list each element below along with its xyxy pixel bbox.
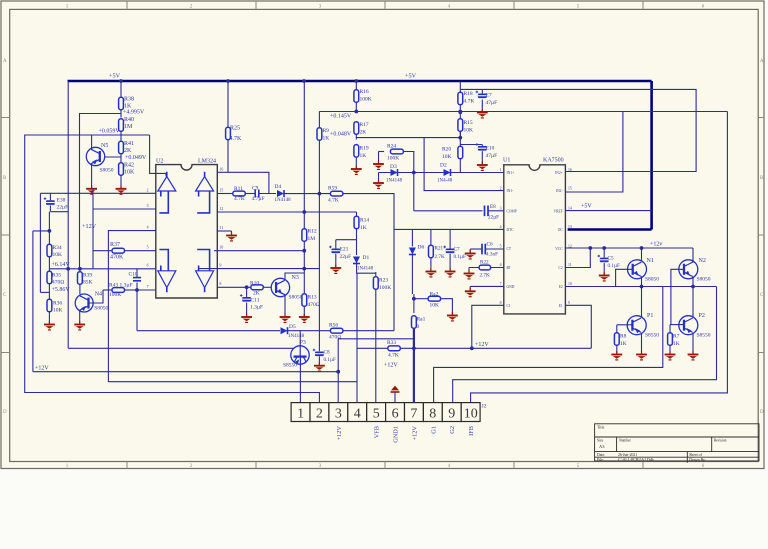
svg-text:7: 7: [410, 407, 417, 422]
op-amp B stubs: [197, 172, 209, 213]
resistor R18: [458, 92, 463, 105]
svg-text:GND: GND: [507, 285, 515, 289]
capacitor C8: [315, 352, 324, 357]
ground under E10: [481, 162, 483, 165]
svg-text:E10: E10: [486, 146, 495, 152]
svg-text:22µF: 22µF: [488, 215, 499, 221]
svg-text:4: 4: [500, 225, 502, 229]
svg-text:E8: E8: [490, 204, 496, 210]
svg-text:14: 14: [568, 207, 572, 211]
svg-text:6: 6: [392, 407, 399, 422]
wire pin11 C2 column: [565, 248, 590, 268]
capacitor C7: [449, 229, 451, 248]
svg-text:COMP: COMP: [507, 209, 517, 213]
svg-text:S8550: S8550: [645, 333, 659, 339]
resistor R34: [47, 244, 52, 257]
resistor R59: [330, 191, 343, 196]
svg-text:R18: R18: [464, 91, 473, 97]
ground under E21: [335, 265, 337, 268]
svg-text:D: D: [3, 410, 7, 415]
svg-text:R13: R13: [308, 295, 317, 301]
svg-text:E38: E38: [57, 198, 66, 204]
wire x40 drop: [39, 193, 41, 292]
svg-text:1K: 1K: [323, 136, 330, 142]
wire pin3 riser: [337, 339, 339, 403]
svg-text:2: 2: [147, 189, 149, 193]
svg-text:C7: C7: [454, 247, 460, 253]
capacitor E21: [335, 240, 337, 249]
svg-text:470Ω: 470Ω: [52, 280, 64, 286]
wire LM324 pin3: [93, 208, 156, 210]
svg-text:C10: C10: [129, 272, 138, 278]
wire C10 node to pin7 LM324: [137, 289, 156, 291]
svg-text:13: 13: [568, 225, 572, 229]
svg-text:IN2+: IN2+: [555, 171, 563, 175]
wire D4 to R59: [285, 193, 331, 195]
svg-text:R24: R24: [387, 144, 396, 150]
svg-text:R8: R8: [620, 334, 627, 340]
svg-text:R14: R14: [360, 218, 369, 224]
wire pin9 LM324 row: [199, 268, 319, 270]
wire COMP row: [414, 210, 483, 212]
wire P2 emitter: [692, 334, 694, 355]
wire E1 row drop to +12V row: [565, 305, 591, 348]
wire pin1 row U1: [379, 172, 504, 174]
resistor R17: [354, 122, 359, 135]
svg-text:7: 7: [147, 285, 149, 289]
wire N3 emitter down: [284, 295, 286, 317]
resistor R16: [354, 90, 359, 103]
svg-text:1N4148: 1N4148: [288, 334, 305, 339]
svg-text:3: 3: [335, 407, 342, 422]
wire P3 base row: [68, 347, 293, 349]
ground under R7: [669, 351, 671, 354]
svg-text:N3: N3: [292, 275, 299, 281]
ground under C5: [603, 272, 605, 275]
svg-text:Ra2: Ra2: [430, 292, 439, 298]
svg-text:R16: R16: [360, 89, 369, 95]
wire feedback loop pin16: [228, 172, 269, 193]
svg-text:R17: R17: [360, 122, 369, 128]
wire +0.059V long left rail: [25, 135, 320, 403]
svg-text:26-Jun-2021: 26-Jun-2021: [618, 453, 637, 457]
svg-text:VFB: VFB: [374, 426, 381, 438]
svg-text:10K: 10K: [442, 154, 452, 160]
ground above connector pin6: [391, 391, 400, 393]
wire x93 vertical: [92, 188, 94, 269]
wire N1 collector drop: [641, 248, 643, 261]
svg-text:100K: 100K: [360, 97, 372, 103]
resistor R38: [119, 97, 124, 110]
svg-text:IN1-: IN1-: [507, 189, 515, 193]
wire R43 row pin7: [103, 289, 112, 291]
wire pin15 U1 loop: [565, 112, 623, 193]
wire junction left 231: [33, 230, 50, 232]
svg-text:11: 11: [220, 226, 224, 230]
svg-text:P2: P2: [699, 313, 705, 319]
svg-text:R39: R39: [83, 273, 92, 279]
svg-text:R35: R35: [52, 273, 61, 279]
svg-text:+5V: +5V: [109, 73, 121, 80]
op-amp D stubs: [197, 250, 209, 293]
wire R38 column: [120, 81, 122, 97]
wire C10 column down to D5 row: [136, 290, 138, 331]
svg-text:10K: 10K: [53, 252, 63, 258]
svg-text:R59: R59: [328, 186, 337, 192]
svg-text:100K: 100K: [379, 285, 391, 291]
resistor R33: [388, 346, 401, 351]
transistor P3: [291, 346, 309, 364]
svg-text:R36: R36: [53, 301, 62, 307]
svg-text:R34: R34: [53, 245, 62, 251]
IC U1 KA7500 body: [504, 165, 566, 314]
svg-text:D2: D2: [440, 163, 447, 169]
transistor N2: [679, 260, 698, 279]
svg-text:E7: E7: [486, 93, 492, 99]
svg-text:R56: R56: [329, 323, 338, 329]
svg-text:S8050: S8050: [94, 306, 108, 312]
wire E2 row: [565, 286, 716, 288]
svg-text:G2: G2: [449, 426, 456, 434]
wire D1 to R23: [357, 264, 376, 273]
svg-text:GND1: GND1: [393, 426, 400, 443]
wire DTC row: [394, 228, 504, 230]
svg-text:C:\ALL-PCB\5A2.Ddb: C:\ALL-PCB\5A2.Ddb: [618, 458, 654, 462]
svg-text:R7: R7: [673, 334, 680, 340]
svg-text:R25: R25: [230, 126, 240, 132]
svg-text:R33: R33: [387, 340, 396, 346]
svg-text:2: 2: [500, 187, 502, 191]
svg-text:A3: A3: [599, 444, 605, 449]
svg-text:+12V: +12V: [35, 366, 49, 372]
svg-text:9: 9: [568, 301, 570, 305]
border zone ticks and labels: [126, 1, 128, 469]
svg-text:R15: R15: [464, 120, 473, 126]
svg-text:100K: 100K: [109, 292, 121, 298]
wire +6.14V pin6 LM324: [49, 268, 155, 270]
svg-text:Drawn By:: Drawn By:: [689, 458, 706, 462]
title block: [595, 424, 759, 463]
wire G2 staircase pin9: [453, 287, 717, 403]
resistor R24: [390, 149, 403, 154]
svg-text:+0.049V: +0.049V: [125, 155, 147, 161]
transistor N5: [86, 147, 104, 165]
svg-text:C8: C8: [324, 350, 330, 356]
ground R22 left: [468, 268, 470, 274]
resistor R22: [479, 265, 491, 270]
svg-text:+12V: +12V: [336, 426, 343, 441]
svg-text:0: 0: [417, 324, 420, 330]
svg-text:IN2-: IN2-: [556, 189, 564, 193]
svg-text:4.7K: 4.7K: [464, 99, 475, 105]
svg-text:R21: R21: [435, 246, 444, 252]
resistor R9: [317, 128, 322, 141]
wire VCC row: [565, 247, 693, 249]
wire D5 to R56: [288, 330, 330, 332]
svg-text:4.7K: 4.7K: [328, 198, 339, 204]
svg-text:10: 10: [220, 246, 224, 250]
svg-text:R43 1.3µF: R43 1.3µF: [109, 283, 133, 289]
diode D6 stub: [411, 229, 413, 246]
junction dot divider: [458, 110, 462, 114]
svg-text:4.7K: 4.7K: [234, 196, 245, 202]
svg-text:15: 15: [568, 187, 572, 191]
wire pin12 LM324 row: [217, 211, 356, 213]
wire N3 collector up: [285, 273, 304, 279]
resistor Ra2: [428, 296, 441, 301]
op-amp A stubs: [159, 172, 168, 213]
svg-text:+0.048V: +0.048V: [330, 132, 352, 138]
svg-text:A: A: [3, 59, 7, 64]
svg-text:5: 5: [500, 244, 502, 248]
wire +12V upper row: [338, 338, 414, 340]
wire R24 row: [379, 151, 385, 153]
svg-text:16: 16: [220, 168, 224, 172]
svg-text:47µF: 47µF: [486, 153, 498, 159]
junction dot pin1 node: [412, 171, 416, 175]
wire base N5: [105, 156, 122, 158]
capacitor E8: [485, 206, 489, 217]
resistor Ra1: [412, 316, 417, 329]
svg-text:U2: U2: [156, 159, 163, 165]
svg-text:VREF: VREF: [554, 209, 563, 213]
svg-text:1N4148: 1N4148: [357, 267, 374, 272]
svg-text:R37: R37: [110, 242, 120, 248]
svg-text:+12v: +12v: [650, 242, 662, 248]
svg-text:7: 7: [500, 282, 502, 286]
svg-text:8: 8: [220, 282, 222, 286]
wire pin15 LM324 chain: [217, 193, 233, 195]
svg-text:1K: 1K: [673, 341, 680, 347]
svg-text:22µF: 22µF: [57, 205, 69, 211]
wire N5 collector: [91, 135, 93, 150]
svg-text:N2: N2: [699, 258, 706, 264]
wire +12V bottom bus: [33, 371, 338, 373]
svg-text:S8050: S8050: [645, 277, 659, 283]
svg-text:10K: 10K: [464, 128, 474, 134]
ground under R19: [355, 166, 357, 169]
wire LM324 pin5 through R37: [93, 250, 112, 252]
connector J2 boxes: [291, 403, 480, 422]
svg-text:S8050: S8050: [100, 168, 114, 174]
ground under R36: [48, 321, 50, 324]
svg-text:1M: 1M: [124, 124, 133, 130]
resistor Ra2 row: [414, 298, 428, 300]
svg-text:+0.059V: +0.059V: [99, 129, 121, 135]
resistor R40: [119, 119, 124, 132]
wire R16 R17 R19 column: [355, 81, 357, 90]
wire RT row R22: [469, 267, 504, 269]
wire x40 join R35 R36: [40, 291, 49, 293]
svg-text:1.3µF: 1.3µF: [250, 305, 263, 311]
svg-text:1: 1: [297, 407, 304, 422]
capacitor C10: [136, 269, 138, 278]
diode D2: [444, 169, 451, 176]
op-amp C stubs: [159, 250, 168, 293]
svg-text:10K: 10K: [430, 303, 440, 309]
svg-text:+5.86V: +5.86V: [52, 287, 71, 293]
svg-text:22µF: 22µF: [340, 254, 352, 260]
ground under R13: [303, 314, 305, 317]
svg-text:C2: C2: [558, 266, 562, 270]
svg-text:9: 9: [448, 407, 455, 422]
svg-text:4.7K: 4.7K: [230, 136, 243, 142]
svg-text:11: 11: [568, 263, 572, 267]
svg-text:E1: E1: [559, 304, 563, 308]
capacitor E38: [49, 193, 51, 200]
wire R59 right and down: [343, 194, 394, 331]
ground under R8: [616, 351, 618, 354]
svg-text:J2: J2: [482, 404, 487, 410]
svg-text:D6: D6: [418, 244, 425, 250]
svg-text:IN1+: IN1+: [507, 171, 515, 175]
ground under C8: [318, 362, 320, 365]
svg-text:2K: 2K: [253, 291, 260, 297]
svg-text:2.7K: 2.7K: [480, 273, 490, 279]
wire P3 emitter to connector pin1: [299, 364, 301, 403]
ground under N4: [79, 321, 81, 324]
diode D4: [277, 190, 284, 197]
svg-text:N5: N5: [101, 143, 108, 149]
svg-text:3: 3: [147, 204, 149, 208]
svg-text:R22: R22: [480, 260, 489, 266]
wire P2 base row: [670, 324, 684, 326]
resistor R37: [112, 248, 125, 253]
op-amp U2 LM324 body: [156, 165, 218, 298]
capacitor C9: [255, 190, 259, 198]
svg-text:2: 2: [316, 407, 323, 422]
svg-text:+0.145V: +0.145V: [330, 114, 352, 120]
capacitor C11: [246, 287, 248, 297]
svg-text:4.3nF: 4.3nF: [486, 252, 498, 258]
wire IFB staircase pin10: [471, 112, 728, 403]
wire R33 to +12V dot: [400, 347, 591, 349]
svg-text:+12V: +12V: [411, 426, 418, 441]
transistor P2: [679, 316, 698, 335]
svg-text:R19: R19: [360, 146, 369, 152]
svg-text:+12V: +12V: [384, 363, 398, 369]
svg-text:S8050: S8050: [289, 295, 303, 301]
svg-text:2K: 2K: [124, 148, 132, 154]
svg-text:10: 10: [464, 407, 478, 422]
svg-text:+5V: +5V: [581, 204, 592, 210]
svg-text:S8550: S8550: [283, 363, 297, 369]
wire G1 staircase pin8: [434, 287, 663, 403]
svg-text:4.7K: 4.7K: [388, 353, 399, 359]
svg-text:+4.995V: +4.995V: [123, 110, 145, 116]
svg-text:5: 5: [373, 407, 380, 422]
wire N2 emitter totem: [692, 277, 694, 317]
wire N2 base drop: [671, 269, 684, 324]
wire D6 down: [411, 255, 413, 294]
svg-text:4: 4: [354, 407, 361, 422]
ground under R24 left: [378, 152, 380, 164]
svg-text:0.1µF: 0.1µF: [608, 263, 620, 269]
resistor R35: [48, 269, 50, 272]
wire R25 column: [227, 81, 229, 121]
wire +5V left drop x67: [67, 81, 69, 348]
+5V power rail: [68, 80, 652, 83]
resistor R15: [459, 112, 461, 119]
svg-text:12: 12: [220, 207, 224, 211]
wire pin10 LM324 row: [214, 250, 304, 252]
svg-text:R10: R10: [250, 281, 259, 287]
resistor R36: [48, 292, 50, 299]
svg-text:E2: E2: [559, 285, 563, 289]
svg-text:470Ω: 470Ω: [329, 335, 341, 341]
wire N4 emitter: [79, 310, 81, 324]
ground under Ra2: [451, 312, 453, 315]
svg-text:Revision: Revision: [714, 439, 727, 443]
wire D5 row: [137, 330, 280, 332]
ground pin13 LM324: [231, 231, 233, 235]
svg-text:47µF: 47µF: [486, 100, 498, 106]
svg-text:+5V: +5V: [405, 73, 417, 80]
wire E38 bottom to x67: [50, 211, 68, 213]
wire E21 row: [336, 239, 357, 241]
wire pin13 stub: [217, 230, 231, 232]
resistor R21: [430, 229, 432, 245]
svg-text:1N4-48: 1N4-48: [437, 179, 453, 184]
resistor R10: [251, 285, 263, 290]
resistor R42: [119, 163, 124, 176]
capacitor C6: [482, 244, 485, 255]
resistor R20: [459, 132, 461, 147]
resistor R23: [375, 272, 377, 277]
resistor R14: [356, 212, 358, 217]
svg-text:R41: R41: [124, 141, 134, 147]
svg-text:6: 6: [500, 263, 502, 267]
wire x32 +12V drop: [32, 231, 34, 372]
svg-text:C5: C5: [608, 256, 614, 262]
svg-text:C9: C9: [252, 186, 259, 192]
svg-text:Title: Title: [597, 425, 605, 430]
wire R12 R13 column: [303, 81, 305, 229]
wire LM324 pin4 down to bus: [108, 231, 357, 382]
wire CT row C6: [470, 248, 481, 250]
diode D1: [356, 240, 358, 255]
svg-text:3: 3: [500, 207, 502, 211]
ground left of C6: [469, 249, 471, 253]
wire R24 right down to pin1 node: [403, 152, 413, 211]
svg-text:1: 1: [500, 168, 502, 172]
svg-text:15: 15: [220, 189, 224, 193]
op-amp triangle C down: [158, 271, 176, 288]
wire N1 emitter totem: [641, 277, 643, 317]
svg-text:C11: C11: [251, 298, 260, 304]
svg-text:File:: File:: [597, 458, 604, 462]
ground under N3: [284, 314, 286, 317]
svg-text:1M: 1M: [308, 236, 316, 242]
ground under D3 left: [378, 180, 380, 183]
svg-text:1K: 1K: [360, 225, 367, 231]
svg-text:N4: N4: [95, 292, 102, 298]
wire Ra column: [413, 294, 415, 313]
transistor P1: [627, 316, 646, 335]
wire R56 right: [343, 330, 394, 332]
resistor R7: [669, 325, 671, 333]
transistor N1: [628, 260, 647, 279]
svg-text:KA7500: KA7500: [543, 158, 564, 164]
svg-text:10K: 10K: [124, 170, 135, 176]
wire pin16 LM324: [217, 171, 228, 173]
svg-text:2K: 2K: [360, 130, 367, 136]
wire N5 emitter: [91, 164, 93, 188]
capacitor E10: [460, 144, 482, 146]
transistor N3: [271, 278, 289, 296]
svg-text:10K: 10K: [53, 308, 63, 314]
svg-text:R11: R11: [234, 186, 243, 192]
